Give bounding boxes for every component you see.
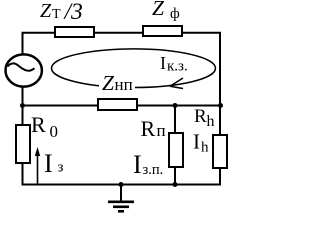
- svg-text:ф: ф: [170, 6, 180, 22]
- svg-text:R: R: [194, 106, 207, 127]
- svg-text:h: h: [201, 140, 209, 156]
- svg-text:I: I: [133, 150, 142, 179]
- svg-text:R: R: [141, 116, 156, 141]
- svg-text:0: 0: [50, 122, 59, 141]
- svg-text:R: R: [31, 112, 46, 137]
- svg-text:/3: /3: [63, 0, 83, 25]
- svg-text:Z: Z: [40, 0, 52, 22]
- svg-text:I: I: [193, 130, 200, 154]
- svg-text:I: I: [160, 53, 166, 73]
- svg-text:п: п: [157, 121, 166, 140]
- svg-text:з.п.: з.п.: [143, 162, 164, 178]
- svg-text:h: h: [207, 113, 215, 130]
- svg-text:Z: Z: [102, 71, 115, 95]
- svg-text:I: I: [44, 149, 53, 178]
- svg-text:нп: нп: [115, 75, 133, 94]
- svg-text:з: з: [58, 160, 64, 176]
- svg-text:Z: Z: [152, 0, 165, 20]
- svg-text:к.з.: к.з.: [167, 59, 188, 75]
- svg-text:T: T: [52, 7, 61, 22]
